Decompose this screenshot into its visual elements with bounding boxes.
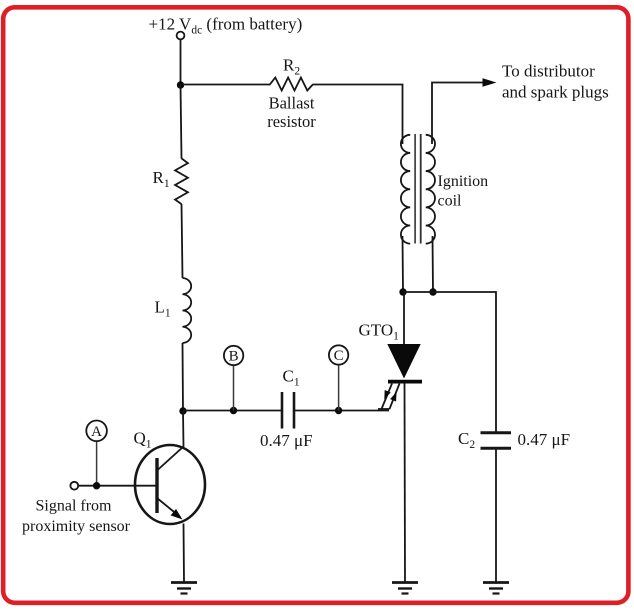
- wire: battery terminal down to junction: [180, 40, 182, 86]
- arrowhead to distributor: [483, 78, 497, 86]
- junction node: primary/GTO anode: [399, 288, 406, 295]
- junction node B tap: [230, 407, 237, 414]
- resistor R2: [270, 78, 313, 91]
- junction node: input/node A: [93, 482, 100, 489]
- node C: [329, 345, 348, 364]
- Q1 emitter lead: [157, 498, 179, 516]
- transformer T1 (ignition coil) primary winding: [401, 135, 410, 244]
- svg-text:Ballast: Ballast: [269, 94, 315, 113]
- GTO gate lead (double line): [378, 408, 390, 410]
- wire: R1 to L1: [182, 204, 183, 278]
- wire: input terminal to Q1 base: [78, 485, 158, 487]
- Q1 emitter arrowhead: [171, 509, 183, 520]
- svg-text:coil: coil: [438, 193, 463, 210]
- svg-text:C: C: [334, 348, 344, 364]
- transformer core: [414, 134, 416, 244]
- capacitor C1: [281, 392, 284, 429]
- wire: GTO cathode down to ground: [404, 384, 407, 583]
- wire: primary bottom to junction: [402, 236, 405, 292]
- wire: node row to C1 left plate: [183, 410, 282, 412]
- GTO1 anode triangle: [387, 344, 420, 379]
- capacitor C2: [481, 431, 512, 434]
- +12V supply terminal: [177, 32, 185, 40]
- svg-text:0.47 μF: 0.47 μF: [260, 431, 313, 450]
- wire: junction down to R1: [181, 85, 182, 159]
- svg-text:A: A: [91, 424, 102, 440]
- junction node: L1/Q1 collector/C1 wire: [179, 407, 186, 414]
- wire: secondary bottom to junction: [432, 236, 435, 292]
- svg-text:resistor: resistor: [267, 112, 316, 131]
- wire: junction to R2: [181, 84, 271, 86]
- ground (C2): [483, 581, 509, 584]
- node B stub: [233, 365, 235, 410]
- input terminal (signal): [70, 482, 78, 490]
- junction node C tap: [335, 407, 342, 414]
- wire: secondary top to distributor: [432, 83, 484, 145]
- GTO1 cathode bar: [388, 380, 422, 384]
- svg-text:Ignition: Ignition: [438, 173, 489, 190]
- node B: [224, 346, 243, 365]
- svg-text:+12 Vdc (from battery): +12 Vdc (from battery): [149, 15, 303, 37]
- wire: Q1 emitter to ground: [183, 524, 186, 583]
- Q1 collector lead: [157, 411, 184, 471]
- junction node: battery/R1/R2: [177, 81, 184, 88]
- svg-text:GTO1: GTO1: [359, 321, 400, 343]
- GTO gate arrowhead (out): [384, 390, 390, 400]
- svg-text:To distributor: To distributor: [502, 62, 595, 81]
- resistor R1: [175, 158, 188, 204]
- wire: R2 to ignition coil primary: [313, 85, 403, 145]
- wire: GTO anode from junction: [403, 292, 405, 345]
- svg-text:B: B: [229, 349, 239, 365]
- transformer T1 (ignition coil) secondary winding: [426, 135, 435, 244]
- junction node: secondary/C2: [429, 288, 436, 295]
- GTO gate arrowhead (in): [390, 392, 396, 402]
- node A stub: [96, 441, 98, 486]
- ground (Q1): [171, 581, 197, 584]
- svg-text:0.47 μF: 0.47 μF: [518, 430, 571, 449]
- svg-text:proximity sensor: proximity sensor: [22, 518, 131, 535]
- wire: C1 right plate to GTO gate: [294, 410, 389, 412]
- Q1 base bar: [155, 458, 158, 513]
- wire: L1 to main node row: [182, 343, 185, 411]
- ground (GTO1): [392, 581, 418, 584]
- transistor Q1 body: [135, 445, 205, 524]
- wire: C2 bottom plate to ground: [495, 448, 497, 582]
- wire: junction row to C2 branch: [403, 292, 496, 432]
- svg-text:and spark plugs: and spark plugs: [502, 83, 609, 102]
- node A: [86, 421, 107, 442]
- node C stub: [338, 365, 340, 411]
- inductor L1: [183, 278, 192, 343]
- svg-text:Signal from: Signal from: [36, 498, 113, 515]
